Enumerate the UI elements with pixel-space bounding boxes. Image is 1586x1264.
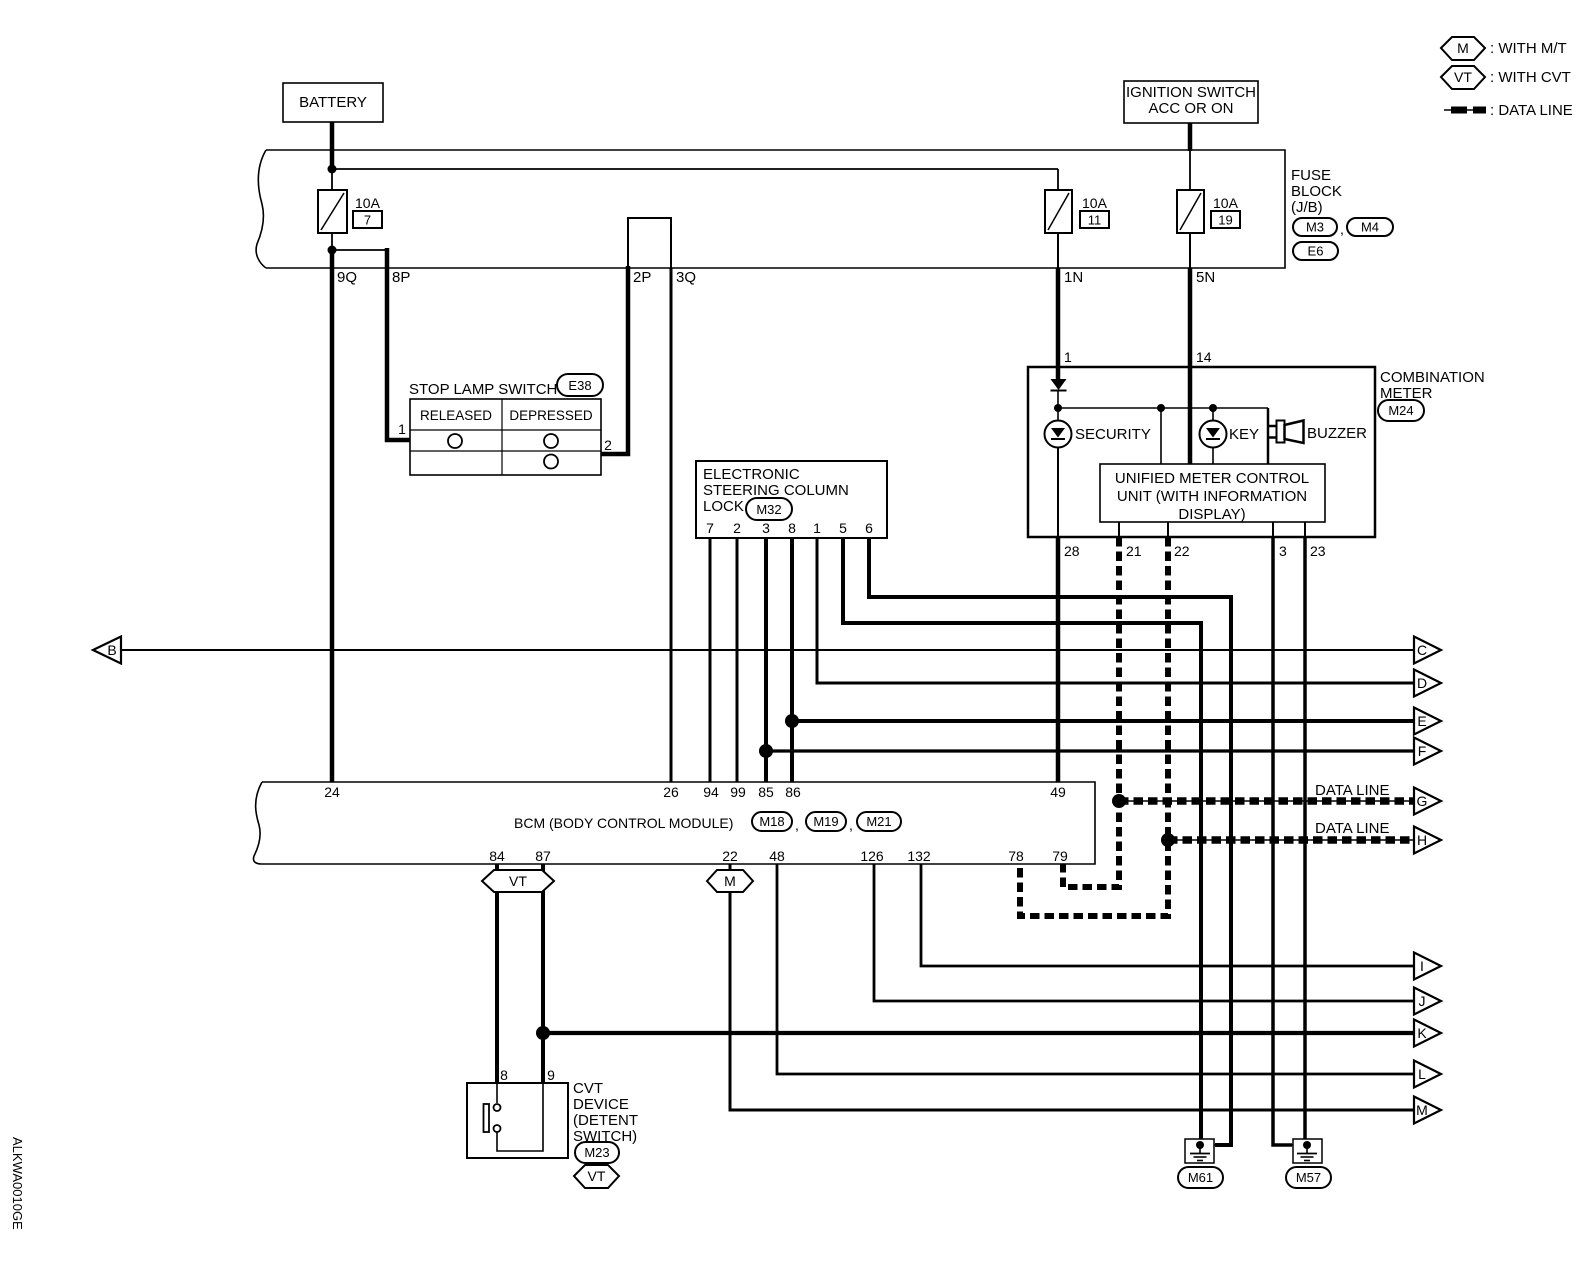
svg-text:G: G xyxy=(1417,793,1428,809)
connector oval M18 xyxy=(752,812,792,831)
svg-text:DISPLAY): DISPLAY) xyxy=(1178,506,1245,523)
arrow D xyxy=(1414,670,1441,697)
CVT device box xyxy=(467,1083,568,1158)
svg-text:(J/B): (J/B) xyxy=(1291,199,1323,216)
wire fuse 7 to lower junction xyxy=(331,233,333,252)
combination meter box xyxy=(1028,367,1375,537)
wire umcu branch down xyxy=(1160,408,1162,464)
svg-text:M24: M24 xyxy=(1388,403,1413,418)
junction dot wire 85 / F xyxy=(759,744,773,758)
svg-text:1: 1 xyxy=(813,520,821,536)
stop lamp switch contact released xyxy=(448,434,462,448)
data line G dashes xyxy=(1119,797,1414,805)
svg-text:L: L xyxy=(1418,1066,1426,1082)
svg-text:10A: 10A xyxy=(1213,195,1239,211)
wire BCM pin 22 to arrow M xyxy=(730,864,1414,1110)
svg-text:BCM (BODY CONTROL MODULE): BCM (BODY CONTROL MODULE) xyxy=(514,815,733,831)
wire 5N fuse block to combination meter pin 14 xyxy=(1188,268,1193,368)
wire pin 1 into meter xyxy=(1056,367,1061,380)
svg-text:M32: M32 xyxy=(756,502,781,517)
svg-text:E6: E6 xyxy=(1308,244,1324,259)
connector oval M23 xyxy=(575,1142,619,1163)
legend hexagon VT (WITH CVT) xyxy=(1441,66,1485,89)
arrow G xyxy=(1414,788,1441,815)
svg-text:ACC OR ON: ACC OR ON xyxy=(1148,100,1233,117)
wire steering lock pin 3 to BCM pin 85 xyxy=(764,538,768,783)
wire steering lock pin 6 to ground M61 xyxy=(869,538,1231,1145)
svg-text:85: 85 xyxy=(758,784,774,800)
connector oval M19 xyxy=(806,812,846,831)
detent switch contact upper xyxy=(494,1104,501,1111)
data line H dashes xyxy=(1168,836,1414,844)
internal supply line inside meter xyxy=(1058,407,1268,409)
svg-text:2P: 2P xyxy=(633,269,651,286)
fuse 10A 7 xyxy=(318,190,347,233)
data line meter pin 22 to BCM pin 78 xyxy=(1020,537,1168,916)
wire branch to 8P xyxy=(332,249,387,251)
wire 8P down to stop lamp switch xyxy=(387,248,411,440)
wire umcu stub pin 23 xyxy=(1304,522,1306,537)
wire umcu stub pin 3 xyxy=(1272,522,1274,537)
svg-text:28: 28 xyxy=(1064,543,1080,559)
wire inside block to fuse 19 xyxy=(1189,150,1191,191)
svg-text:1: 1 xyxy=(1064,349,1072,365)
wire K horizontal to arrow K xyxy=(543,1031,1414,1035)
wire buzzer branch xyxy=(1267,408,1270,464)
wire 3Q to BCM pin 26 xyxy=(670,268,673,783)
wire umcu stub pin 22 xyxy=(1167,522,1169,537)
wire meter pin 23 to ground M57 xyxy=(1303,537,1307,1145)
svg-text:87: 87 xyxy=(535,848,551,864)
svg-text:: WITH M/T: : WITH M/T xyxy=(1490,40,1567,57)
buzzer symbol xyxy=(1268,421,1304,444)
stop lamp switch contact depressed upper xyxy=(544,434,558,448)
svg-text:DEVICE: DEVICE xyxy=(573,1096,629,1113)
data line meter pin 21 to BCM pin 79 xyxy=(1063,537,1119,887)
junction dot key branch xyxy=(1209,404,1217,412)
svg-text:BLOCK: BLOCK xyxy=(1291,183,1342,200)
svg-text:10A: 10A xyxy=(355,195,381,211)
svg-text:B: B xyxy=(107,642,116,658)
arrow J xyxy=(1414,988,1441,1015)
hexagon VT below CVT device xyxy=(574,1165,619,1188)
wire steering lock pin 7 to BCM pin 94 xyxy=(709,538,712,783)
wire B to C horizontal xyxy=(121,649,1414,651)
wire meter pin 28 to BCM pin 49 xyxy=(1056,537,1061,783)
svg-text:2: 2 xyxy=(733,520,741,536)
svg-text:49: 49 xyxy=(1050,784,1066,800)
arrow C xyxy=(1414,637,1441,664)
wire 9Q battery to BCM pin 24 xyxy=(330,250,335,783)
arrow F xyxy=(1414,738,1441,765)
wire F horizontal to arrow F xyxy=(766,749,1414,752)
ground M57 symbol xyxy=(1297,1141,1317,1161)
svg-text:D: D xyxy=(1417,675,1427,691)
svg-text:3: 3 xyxy=(762,520,770,536)
svg-text:DATA LINE: DATA LINE xyxy=(1315,782,1389,799)
svg-text:M21: M21 xyxy=(866,814,891,829)
jumper loop 2P-3Q inside fuse block xyxy=(628,218,671,268)
svg-text:22: 22 xyxy=(1174,543,1190,559)
unified meter control unit box xyxy=(1100,464,1325,523)
svg-text:19: 19 xyxy=(1218,213,1232,228)
wire key branch down xyxy=(1212,408,1214,421)
wire fuse 19 to block edge xyxy=(1189,233,1191,268)
svg-text:M23: M23 xyxy=(584,1145,609,1160)
fuse number box 7 xyxy=(353,211,382,228)
svg-text:10A: 10A xyxy=(1082,195,1108,211)
LED key xyxy=(1200,421,1227,448)
BCM body control module box xyxy=(253,782,1095,864)
svg-text:STEERING COLUMN: STEERING COLUMN xyxy=(703,482,849,499)
svg-text:14: 14 xyxy=(1196,349,1212,365)
svg-text:99: 99 xyxy=(730,784,746,800)
wire BCM pin 132 to arrow I xyxy=(921,864,1414,966)
svg-text:5N: 5N xyxy=(1196,269,1215,286)
wire pin 9 inside CVT device xyxy=(497,1083,543,1151)
wire steering lock pin 2 to BCM pin 99 xyxy=(736,538,739,783)
fuse 10A 19 xyxy=(1177,190,1204,233)
svg-text:M4: M4 xyxy=(1361,220,1379,235)
svg-text:BUZZER: BUZZER xyxy=(1307,425,1367,442)
svg-text:2: 2 xyxy=(604,437,612,453)
wire steering lock pin 8 to BCM pin 86 xyxy=(790,538,794,783)
fuse 10A 11 xyxy=(1045,190,1072,233)
detent switch plunger xyxy=(484,1104,490,1132)
connector oval M61 xyxy=(1178,1167,1223,1188)
battery box xyxy=(283,83,383,122)
ignition switch box xyxy=(1124,81,1258,123)
stop lamp switch contact depressed lower xyxy=(544,455,558,469)
svg-text:3Q: 3Q xyxy=(676,269,696,286)
wire security LED to meter edge xyxy=(1057,448,1059,538)
LED security xyxy=(1045,421,1072,448)
hexagon M below BCM pin 22 xyxy=(707,870,753,892)
arrow B xyxy=(93,637,121,664)
svg-text:M: M xyxy=(1416,1102,1428,1118)
svg-text:RELEASED: RELEASED xyxy=(420,408,492,423)
wire BCM pin 84 to CVT device pin 8 xyxy=(495,864,499,1083)
svg-text:UNIT (WITH INFORMATION: UNIT (WITH INFORMATION xyxy=(1117,488,1307,505)
svg-text:1N: 1N xyxy=(1064,269,1083,286)
junction dot data line G xyxy=(1112,794,1126,808)
svg-text:,: , xyxy=(1340,221,1344,237)
wire 2P to stop lamp switch pin 2 xyxy=(600,266,628,454)
svg-text:94: 94 xyxy=(703,784,719,800)
svg-text:VT: VT xyxy=(1454,69,1472,85)
svg-text:F: F xyxy=(1418,743,1427,759)
svg-text:I: I xyxy=(1420,958,1424,974)
ground M57 box xyxy=(1293,1139,1322,1163)
svg-text:J: J xyxy=(1419,993,1426,1009)
svg-text:DATA LINE: DATA LINE xyxy=(1315,820,1389,837)
svg-text:C: C xyxy=(1417,642,1427,658)
junction dot umcu branch xyxy=(1157,404,1165,412)
hexagon VT below BCM xyxy=(482,870,554,892)
svg-text:ELECTRONIC: ELECTRONIC xyxy=(703,466,800,483)
svg-text:FUSE: FUSE xyxy=(1291,167,1331,184)
wire E horizontal to arrow E xyxy=(792,719,1414,723)
arrow M xyxy=(1414,1097,1441,1124)
svg-text:: WITH CVT: : WITH CVT xyxy=(1490,69,1571,86)
wire diode to junction xyxy=(1057,390,1059,421)
detent switch contact lower xyxy=(494,1125,501,1132)
svg-text:UNIFIED METER CONTROL: UNIFIED METER CONTROL xyxy=(1115,470,1309,487)
svg-text:,: , xyxy=(849,817,853,833)
arrow L xyxy=(1414,1061,1441,1088)
svg-text:11: 11 xyxy=(1088,213,1102,228)
svg-text:IGNITION SWITCH: IGNITION SWITCH xyxy=(1126,84,1256,101)
stop lamp switch table xyxy=(410,399,601,475)
svg-text:26: 26 xyxy=(663,784,679,800)
svg-text:VT: VT xyxy=(588,1168,606,1184)
svg-text:E: E xyxy=(1417,713,1426,729)
svg-text:23: 23 xyxy=(1310,543,1326,559)
wire battery to fuse block xyxy=(330,122,335,171)
fuse block label xyxy=(1291,167,1342,216)
wire steering lock pin 5 to ground M61 xyxy=(843,538,1201,1145)
svg-text:21: 21 xyxy=(1126,543,1142,559)
arrow H xyxy=(1414,827,1441,854)
wire pin 14 to umcu xyxy=(1188,367,1193,464)
svg-text:,: , xyxy=(795,817,799,833)
svg-text:7: 7 xyxy=(364,213,371,228)
svg-text:8: 8 xyxy=(788,520,796,536)
wire fuse 11 to block edge xyxy=(1057,233,1059,268)
junction dot wire 86 / E xyxy=(785,714,799,728)
svg-text:ALKWA0010GE: ALKWA0010GE xyxy=(10,1137,25,1230)
svg-text:VT: VT xyxy=(509,873,527,889)
svg-text:84: 84 xyxy=(489,848,505,864)
svg-text:M57: M57 xyxy=(1296,1170,1321,1185)
svg-text:E38: E38 xyxy=(568,378,591,393)
junction dot below fuse 7 xyxy=(328,246,337,255)
svg-text:6: 6 xyxy=(865,520,873,536)
wire steering lock pin 1 to arrow D xyxy=(817,538,1414,683)
svg-text:KEY: KEY xyxy=(1229,426,1259,443)
data line G thin core xyxy=(1119,800,1414,802)
wire thin bus inside fuse block xyxy=(332,168,1058,170)
wire BCM pin 48 to arrow L xyxy=(777,864,1414,1074)
svg-text:9: 9 xyxy=(547,1067,555,1083)
arrow E xyxy=(1414,708,1441,735)
svg-text:126: 126 xyxy=(860,848,884,864)
svg-text:BATTERY: BATTERY xyxy=(299,94,367,111)
connector oval M3 xyxy=(1293,218,1337,236)
wire ignition switch to fuse block xyxy=(1188,123,1193,151)
data line H thin core xyxy=(1168,839,1414,841)
svg-text:5: 5 xyxy=(839,520,847,536)
svg-text:(DETENT: (DETENT xyxy=(573,1112,638,1129)
junction dot wire 87 / K xyxy=(536,1026,550,1040)
wire 1N fuse block to combination meter pin 1 xyxy=(1056,268,1061,368)
junction dot at battery feed xyxy=(328,165,337,174)
connector oval M4 xyxy=(1347,218,1393,236)
fuse block J/B outline xyxy=(256,150,1285,268)
svg-text:48: 48 xyxy=(769,848,785,864)
svg-text:M3: M3 xyxy=(1306,220,1324,235)
connector oval E6 xyxy=(1293,242,1338,260)
svg-text:M18: M18 xyxy=(759,814,784,829)
svg-text:M61: M61 xyxy=(1188,1170,1213,1185)
legend data line sample xyxy=(1444,107,1486,114)
svg-text:: DATA LINE: : DATA LINE xyxy=(1490,102,1573,119)
svg-text:M19: M19 xyxy=(813,814,838,829)
svg-text:DEPRESSED: DEPRESSED xyxy=(509,408,593,423)
ground M61 box xyxy=(1185,1139,1214,1163)
svg-text:LOCK: LOCK xyxy=(703,498,744,515)
svg-text:8: 8 xyxy=(500,1067,508,1083)
svg-text:78: 78 xyxy=(1008,848,1024,864)
combination meter label xyxy=(1380,369,1485,402)
arrow K xyxy=(1414,1020,1441,1047)
fuse number box 11 xyxy=(1080,211,1109,228)
wire pin 8 inside CVT device xyxy=(496,1083,498,1103)
svg-text:K: K xyxy=(1417,1025,1427,1041)
svg-text:79: 79 xyxy=(1052,848,1068,864)
svg-text:22: 22 xyxy=(722,848,738,864)
ground M61 symbol xyxy=(1190,1141,1210,1161)
svg-text:SECURITY: SECURITY xyxy=(1075,426,1151,443)
legend hexagon M (WITH M/T) xyxy=(1441,37,1485,60)
junction dot data line H xyxy=(1161,833,1175,847)
svg-text:86: 86 xyxy=(785,784,801,800)
svg-text:24: 24 xyxy=(324,784,340,800)
svg-text:1: 1 xyxy=(398,421,406,437)
junction dot security branch xyxy=(1054,404,1062,412)
svg-text:132: 132 xyxy=(907,848,931,864)
arrow I xyxy=(1414,953,1441,980)
wire drop to fuse 11 xyxy=(1057,169,1059,191)
svg-text:H: H xyxy=(1417,832,1427,848)
CVT device label xyxy=(573,1080,638,1145)
wire key LED to umcu xyxy=(1212,448,1214,465)
connector oval M21 xyxy=(857,812,901,831)
svg-text:7: 7 xyxy=(706,520,714,536)
svg-text:9Q: 9Q xyxy=(337,269,357,286)
connector oval M32 xyxy=(746,498,792,520)
connector oval M24 xyxy=(1378,400,1424,421)
fuse number box 19 xyxy=(1211,211,1240,228)
svg-text:M: M xyxy=(1457,40,1469,56)
electronic steering column lock box M32 xyxy=(696,461,887,538)
wire BCM pin 87 to CVT device pin 9 xyxy=(541,864,545,1083)
svg-text:8P: 8P xyxy=(392,269,410,286)
wire to fuse 7 xyxy=(331,169,333,191)
wire BCM pin 126 to arrow J xyxy=(874,864,1414,1001)
connector oval M57 xyxy=(1286,1167,1331,1188)
diode D1 inside meter xyxy=(1051,379,1067,391)
wire umcu stub pin 21 xyxy=(1118,522,1120,537)
svg-text:3: 3 xyxy=(1279,543,1287,559)
connector oval E38 xyxy=(557,374,603,396)
svg-text:STOP LAMP SWITCH: STOP LAMP SWITCH xyxy=(409,381,557,398)
svg-text:M: M xyxy=(724,873,736,889)
svg-text:CVT: CVT xyxy=(573,1080,603,1097)
svg-text:COMBINATION: COMBINATION xyxy=(1380,369,1485,386)
wire meter pin 3 to ground M57 xyxy=(1273,537,1292,1145)
